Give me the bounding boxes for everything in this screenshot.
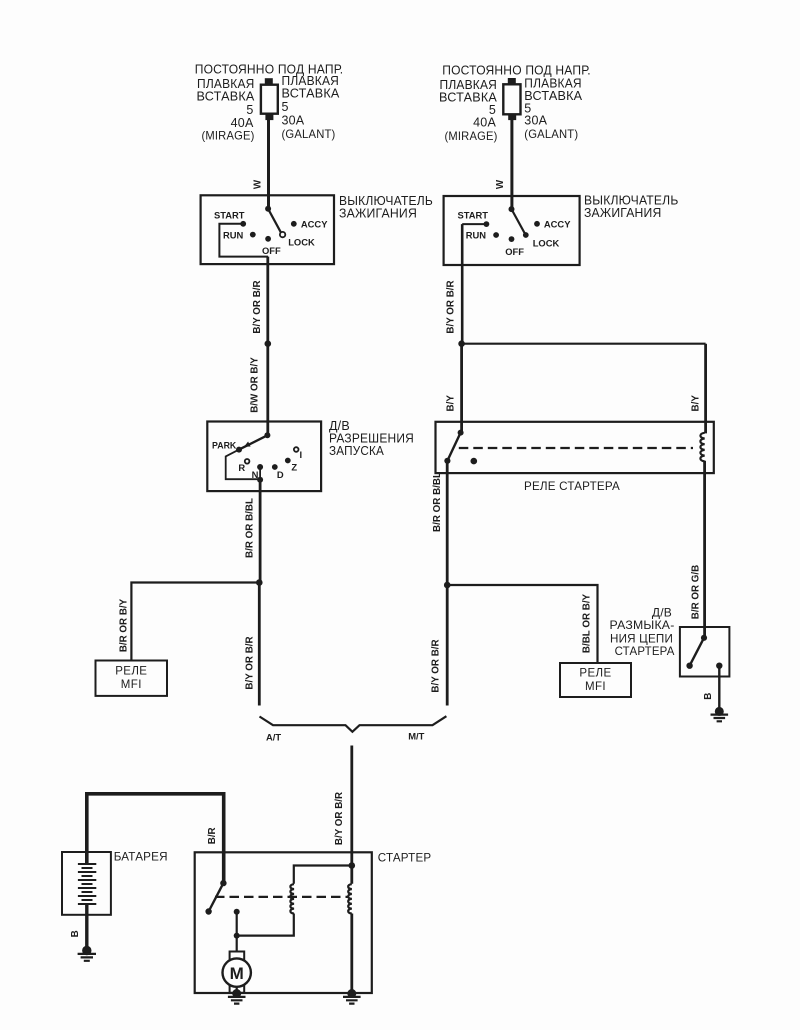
svg-text:Z: Z [291,461,297,472]
svg-text:РЕЛЕ СТАРТЕРА: РЕЛЕ СТАРТЕРА [524,479,620,493]
svg-text:B/Y: B/Y [691,395,702,412]
svg-text:OFF: OFF [505,246,524,257]
svg-text:B/Y OR B/R: B/Y OR B/R [245,636,256,689]
svg-text:СТАРТЕРА: СТАРТЕРА [615,644,675,658]
svg-text:ACCY: ACCY [544,219,571,230]
svg-text:START: START [214,209,245,220]
svg-text:B/R OR B/BL: B/R OR B/BL [432,472,443,532]
svg-text:START: START [457,210,488,221]
svg-text:I: I [299,449,302,460]
svg-text:B/Y: B/Y [446,395,457,412]
svg-text:B/R OR B/BL: B/R OR B/BL [245,498,256,558]
svg-text:БАТАРЕЯ: БАТАРЕЯ [114,850,168,864]
svg-text:40A: 40A [473,115,496,129]
svg-text:ВСТАВКА: ВСТАВКА [197,89,255,103]
svg-text:ВСТАВКА: ВСТАВКА [282,87,340,101]
svg-text:LOCK: LOCK [533,237,560,248]
svg-text:B/Y OR B/R: B/Y OR B/R [334,792,345,845]
svg-text:30A: 30A [524,113,547,127]
svg-text:PARK: PARK [212,440,237,450]
svg-text:W: W [495,179,506,189]
svg-text:5: 5 [282,100,289,114]
svg-text:B/R OR B/Y: B/R OR B/Y [119,598,130,652]
svg-text:5: 5 [246,103,253,117]
svg-text:30A: 30A [282,114,305,128]
svg-text:MFI: MFI [121,679,142,691]
svg-text:ВСТАВКА: ВСТАВКА [524,89,582,103]
svg-text:MFI: MFI [585,681,606,693]
svg-text:W: W [253,179,264,189]
svg-text:ПОСТОЯННО ПОД НАПР.: ПОСТОЯННО ПОД НАПР. [442,64,591,78]
svg-text:(MIRAGE): (MIRAGE) [445,129,498,143]
svg-text:ЗАЖИГАНИЯ: ЗАЖИГАНИЯ [584,206,662,220]
svg-text:B/R OR G/B: B/R OR G/B [691,565,702,619]
svg-text:RUN: RUN [223,230,244,241]
svg-text:R: R [238,462,245,473]
svg-text:B/Y OR B/R: B/Y OR B/R [446,280,457,333]
svg-text:РАЗМЫКА-: РАЗМЫКА- [610,618,675,632]
svg-text:B/W OR B/Y: B/W OR B/Y [250,357,261,413]
svg-text:(GALANT): (GALANT) [282,127,336,141]
svg-text:СТАРТЕР: СТАРТЕР [378,851,432,865]
svg-text:D: D [277,469,284,480]
svg-text:RUN: RUN [466,230,487,241]
svg-text:B/BL OR B/Y: B/BL OR B/Y [582,593,593,653]
svg-text:B: B [70,930,81,937]
svg-text:РЕЛЕ: РЕЛЕ [579,668,611,680]
svg-text:B/R: B/R [207,827,218,844]
svg-text:ЗАПУСКА: ЗАПУСКА [329,444,384,458]
svg-text:B: B [703,693,714,700]
svg-text:РЕЛЕ: РЕЛЕ [115,665,147,677]
svg-text:N: N [252,469,259,480]
svg-text:(GALANT): (GALANT) [524,127,578,141]
svg-text:M: M [230,964,244,983]
svg-text:ЗАЖИГАНИЯ: ЗАЖИГАНИЯ [339,207,417,221]
svg-text:B/Y OR B/R: B/Y OR B/R [252,280,263,333]
svg-text:A/T: A/T [266,732,281,743]
svg-text:LOCK: LOCK [288,236,315,247]
svg-text:M/T: M/T [408,731,424,742]
svg-text:ACCY: ACCY [301,219,328,230]
svg-text:B/Y OR B/R: B/Y OR B/R [431,639,442,692]
svg-text:OFF: OFF [262,245,281,256]
svg-text:(MIRAGE): (MIRAGE) [202,129,255,143]
